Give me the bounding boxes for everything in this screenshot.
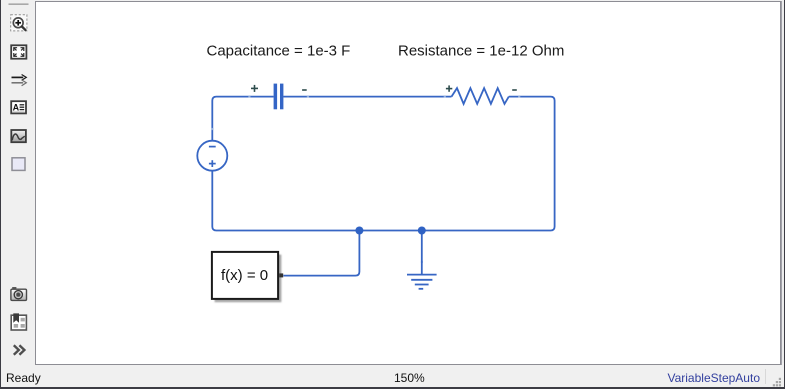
resize grip [770, 376, 783, 388]
svg-text:f(x) = 0: f(x) = 0 [221, 267, 268, 284]
solver block f(x)=0 [212, 252, 278, 299]
svg-text:Resistance = 1e-12 Ohm: Resistance = 1e-12 Ohm [398, 42, 564, 59]
port polarity label: resistor - [512, 89, 517, 91]
toolbar icons [0, 0, 36, 360]
node junction dot A [355, 227, 363, 235]
solver block port [279, 273, 283, 277]
fit-to-view tool [11, 45, 26, 58]
solver block f(x)=0 shadow [215, 255, 282, 303]
image/plot tool [11, 130, 26, 142]
signal arrows tool [12, 75, 27, 86]
wire: branch from node to solver block [283, 231, 359, 276]
node junction dot B [418, 227, 426, 235]
port polarity label: resistor + [446, 85, 452, 91]
right gutter [782, 1, 785, 363]
report tool [11, 313, 26, 330]
capacitor C1 [274, 84, 284, 110]
wire: left upper segment with top-left corner [212, 97, 273, 141]
resistor R1 [452, 88, 509, 104]
camera tool [11, 287, 27, 300]
wire: top right segment + right side + bottom to left side [212, 97, 554, 231]
expand chevron [14, 345, 25, 355]
status bar [6, 371, 41, 385]
ground G1 [407, 231, 437, 289]
port polarity label: capacitor - [302, 89, 307, 91]
annotation tool [11, 101, 26, 113]
window edges [0, 0, 1, 389]
port marker ticks [211, 96, 520, 263]
zoom tool (selected, dashed box) [11, 15, 27, 31]
port polarity label: capacitor + [251, 85, 258, 92]
swatch square [12, 158, 25, 171]
svg-text:Capacitance = 1e-3 F: Capacitance = 1e-3 F [207, 42, 351, 59]
toolbar grip line [9, 3, 29, 5]
voltage source V1 [197, 141, 227, 171]
wire: top segment capacitor to resistor [283, 96, 451, 98]
